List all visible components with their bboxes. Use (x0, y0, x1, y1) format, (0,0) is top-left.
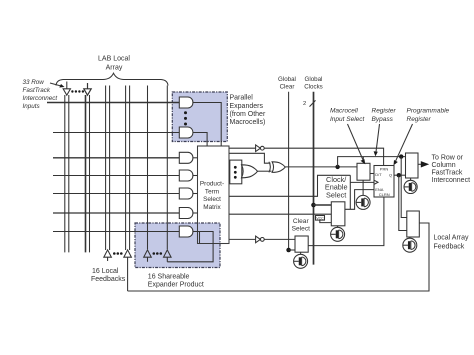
svg-text:CLRN: CLRN (379, 192, 390, 197)
product-term select matrix box (white) (198, 146, 230, 244)
svg-text:FastTrack: FastTrack (23, 87, 51, 94)
junction dot XOR output branch (335, 165, 339, 169)
svg-text:16 Local: 16 Local (92, 268, 119, 275)
junction dot bypass line (399, 154, 403, 158)
register pin labels (375, 167, 392, 198)
svg-text:D/T: D/T (375, 172, 382, 177)
svg-text:Interconnect: Interconnect (432, 177, 471, 184)
wire column c6 (147, 86, 149, 250)
junction dot global clocks (311, 203, 316, 208)
label: Macrocell Input Select (330, 108, 450, 124)
AND gate G7 (shareable expander) (179, 226, 193, 237)
svg-text:Bypass: Bypass (372, 116, 394, 123)
inverter INV1 (256, 145, 261, 152)
wire row r7 (53, 231, 180, 233)
wire local array feedback loop (128, 223, 429, 291)
label arrow: register bypass (376, 124, 380, 154)
dots between expander buffers (153, 252, 163, 255)
svg-text:Input Select: Input Select (330, 116, 366, 123)
wire inverter2 to clear select (264, 238, 295, 240)
input buffer triangle on column c2 (63, 82, 70, 96)
wire column pair c3 (85, 95, 87, 252)
AND gate G6 (179, 208, 193, 219)
dots between expander gates (184, 111, 187, 125)
wire G7 tee into matrix bottom (199, 232, 201, 244)
svg-text:Global: Global (305, 76, 323, 83)
output arrow to fasttrack (421, 161, 429, 167)
wire PTSM to preset (top product term) (229, 147, 256, 149)
svg-text:PRN: PRN (380, 167, 389, 172)
VCC box (316, 216, 325, 221)
svg-text:Matrix: Matrix (203, 204, 221, 211)
wire PTSM enable product term (wire B) (229, 213, 331, 215)
clear select box (295, 236, 308, 252)
pass transistor under output select (404, 178, 417, 193)
OR gate (242, 165, 258, 178)
pass transistor under clock select (331, 226, 345, 242)
AND gate G4 (179, 170, 193, 181)
svg-text:FastTrack: FastTrack (432, 170, 463, 177)
wire clock select to register clock (350, 175, 375, 209)
programmable register (D/T flipflop) (374, 166, 394, 198)
svg-text:To Row or: To Row or (432, 155, 464, 162)
svg-text:Product-: Product- (200, 181, 224, 188)
local feedback buffer on column c5 (124, 250, 132, 291)
svg-text:Feedbacks: Feedbacks (91, 276, 126, 283)
wire row r2 (53, 132, 180, 134)
wire column c7 (166, 86, 168, 250)
brace LAB local array (56, 73, 168, 85)
svg-text:Term: Term (205, 189, 219, 196)
label: Clear Select (292, 218, 310, 233)
AND gate G3 (179, 152, 193, 163)
wire row r4 (53, 175, 180, 177)
svg-text:Clear: Clear (293, 218, 310, 225)
wire VCC to clock select (320, 220, 332, 223)
shareable expander buffer on column c6 (144, 250, 152, 262)
pass transistor under clear select (294, 252, 308, 268)
wire G6 output (193, 212, 198, 214)
label arrow: 33 row fasttrack (50, 83, 61, 86)
svg-text:Interconnect: Interconnect (23, 95, 58, 102)
product term group box (OR inputs) (230, 160, 242, 184)
svg-text:Expander Product: Expander Product (148, 282, 204, 289)
pass transistor under input select (356, 180, 370, 209)
wire G1 output (193, 103, 221, 147)
wire G4 output (193, 175, 198, 177)
output select rect (406, 153, 419, 178)
input buffer triangle on column c3 (84, 83, 91, 95)
label arrow: programmable register (395, 124, 413, 163)
svg-text:Parallel: Parallel (230, 95, 254, 102)
wire register Q to output select (394, 174, 406, 176)
feedback select rect (407, 211, 420, 237)
shareable expander buffer on column c7 (164, 250, 172, 262)
svg-text:2: 2 (303, 101, 306, 107)
svg-text:Register: Register (372, 108, 397, 115)
wire PTSM clock product term (wire A) (229, 175, 350, 196)
wire G5 output (193, 193, 198, 195)
AND gate G2 (parallel expander bottom) (179, 127, 193, 138)
wire column pair c4 (106, 86, 110, 251)
svg-text:Clear: Clear (280, 84, 295, 91)
label: Product-Term Select Matrix (200, 181, 224, 212)
svg-text:Register: Register (407, 116, 432, 123)
wire row r3 (53, 157, 180, 159)
wire bypass down to feedback select (401, 157, 407, 218)
wire input select to register D (370, 173, 374, 175)
svg-text:Array: Array (106, 65, 123, 72)
wire G3 output (193, 157, 198, 159)
bus slash on global clocks (310, 100, 316, 106)
svg-text:Feedback: Feedback (434, 244, 465, 251)
wire XOR output to macrocell input select (286, 166, 358, 168)
wire to output arrow (418, 163, 421, 165)
svg-text:Local Array: Local Array (434, 235, 470, 242)
wire clear select to register CLRN (309, 197, 384, 246)
shaded region: shareable expander box (135, 223, 220, 268)
wire column pair c5 (126, 86, 130, 251)
junction dot Q line (397, 173, 401, 177)
label: 33 Row FastTrack Interconnect Inputs (23, 79, 58, 110)
label arrow: macrocell input select (348, 124, 364, 162)
local feedback buffer on column c4 (104, 250, 112, 261)
wire PTSM clear product term (229, 238, 256, 240)
wire global clocks to clock select (314, 204, 332, 206)
label: Global Clear (278, 76, 323, 91)
svg-text:Q: Q (389, 173, 392, 178)
svg-text:(from Other: (from Other (230, 111, 266, 118)
svg-text:33 Row: 33 Row (23, 79, 45, 86)
inverter INV2 (256, 236, 261, 243)
global clocks vertical line (313, 92, 315, 265)
svg-text:LAB Local: LAB Local (98, 56, 130, 63)
pass transistor under feedback select (403, 237, 417, 252)
svg-text:Expanders: Expanders (230, 103, 264, 110)
dots between local feedback buffers (113, 252, 123, 255)
svg-text:VCC: VCC (316, 216, 324, 220)
svg-text:Programmable: Programmable (407, 108, 450, 115)
AND gate G1 (parallel expander top) (179, 97, 193, 108)
wire G2 output (193, 133, 207, 147)
svg-text:Macrocells): Macrocells) (230, 119, 266, 126)
dots in product term group (234, 166, 237, 179)
svg-text:Macrocell: Macrocell (330, 108, 358, 115)
wire row r5 (53, 193, 180, 195)
svg-text:Inputs: Inputs (23, 103, 41, 110)
label: Clock/Enable Select (325, 175, 348, 200)
clock/enable select rect (331, 202, 345, 226)
svg-text:Select: Select (203, 196, 221, 203)
wire G7 output to expander loop (167, 232, 213, 262)
wire register bypass line (338, 157, 406, 167)
wire inverter to register preset (264, 148, 383, 165)
global clear vertical line (288, 92, 290, 250)
shaded region: parallel expanders box (172, 92, 227, 142)
wire row r1 (47, 102, 180, 104)
svg-text:Global: Global (278, 76, 296, 83)
wire enable select to register ENA (345, 190, 374, 210)
svg-text:Column: Column (432, 162, 456, 169)
wire Q down to feedback select (399, 175, 407, 230)
wire bypass tap to input select top (362, 157, 364, 164)
macrocell input select box (357, 163, 370, 180)
svg-text:Clocks: Clocks (304, 84, 323, 91)
XOR gate (269, 162, 285, 173)
wire global clear to clear select (289, 249, 295, 251)
svg-text:16 Shareable: 16 Shareable (148, 274, 190, 281)
dots between input buffers (71, 90, 84, 92)
wire column pair c2 (65, 95, 69, 252)
wire PTSM to XOR top input (229, 153, 271, 163)
wire OR output to XOR (257, 170, 271, 172)
AND gate G5 (179, 188, 193, 199)
svg-text:Select: Select (292, 226, 310, 233)
svg-text:Select: Select (326, 191, 346, 200)
junction dot global clear (286, 248, 291, 253)
wire row r6 (53, 212, 180, 214)
